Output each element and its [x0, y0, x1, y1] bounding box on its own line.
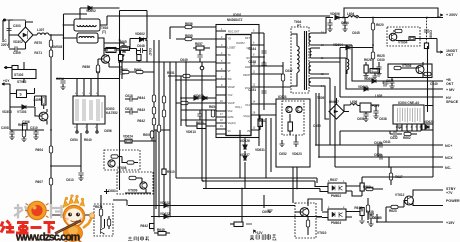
svg-text:VG(12): VG(12): [228, 122, 236, 125]
ground: [389, 86, 394, 89]
IC602 box: [73, 96, 105, 124]
resistor R610 boxed: [162, 169, 166, 175]
resistor inside: [111, 155, 118, 158]
box VT606: [388, 64, 432, 78]
wire bus above IC602: [56, 78, 120, 80]
ground: [327, 29, 332, 32]
cap C310: [33, 132, 38, 134]
diode VD608 boxed: [370, 69, 380, 74]
arrow 180V: [440, 51, 443, 53]
label 来自副电源 (from aux supply): [250, 234, 277, 240]
svg-text:VD602: VD602: [86, 9, 96, 13]
output rail labels: [445, 13, 460, 225]
svg-text:C640: C640: [430, 82, 438, 86]
label C683: [104, 189, 109, 194]
wire C699 ground: [264, 195, 268, 211]
svg-text:DM545: DM545: [52, 45, 63, 49]
svg-text:C616: C616: [125, 107, 133, 111]
dashed vertical + C608: [426, 18, 428, 44]
svg-text:340R: 340R: [33, 98, 41, 102]
resistor R645: [162, 96, 165, 103]
optocoupler PC603: [328, 209, 346, 220]
svg-text:C647: C647: [148, 48, 152, 56]
svg-text:R604: R604: [35, 148, 43, 152]
svg-text:VT606: VT606: [402, 64, 412, 68]
transformer T602 lower winding: [77, 33, 98, 43]
svg-text:C641: C641: [383, 140, 391, 144]
caps on rails: [384, 81, 386, 86]
svg-text:VC(L): VC(L): [235, 106, 242, 109]
capacitor C630: [376, 67, 381, 69]
diode VD604: [346, 46, 350, 50]
svg-text:R662: R662: [403, 136, 411, 140]
wire from left: [240, 130, 317, 183]
resistor R650: [183, 74, 190, 77]
svg-text:R642: R642: [140, 224, 148, 228]
wire: [104, 43, 124, 45]
wire: [181, 62, 186, 126]
resistor inside: [395, 29, 402, 32]
svg-text:C309: C309: [13, 51, 21, 55]
resistor R638 boxed: [360, 208, 364, 216]
resistor R602b: [366, 187, 373, 190]
svg-text:VT: VT: [228, 70, 232, 73]
resistor boxed inside: [288, 122, 293, 131]
svg-text:C632: C632: [390, 136, 398, 140]
svg-text:OKT: OKT: [446, 53, 454, 57]
bottom pins IC602: [77, 124, 97, 131]
svg-text:R637: R637: [330, 178, 338, 182]
resistor R656b: [96, 65, 99, 72]
VD625 boxed diode: [422, 124, 433, 130]
diode VD603: [140, 38, 144, 42]
resistor R618: [366, 205, 369, 212]
svg-text:LOSET: LOSET: [228, 47, 237, 50]
svg-text:VD609: VD609: [358, 85, 368, 89]
svg-text:L307: L307: [37, 28, 44, 32]
svg-text:R642: R642: [137, 119, 145, 123]
svg-text:C645: C645: [352, 31, 360, 35]
resistor R655: [185, 37, 192, 40]
diode VD622: [164, 215, 168, 219]
resistor inside: [99, 209, 102, 216]
svg-text:WC: WC: [228, 78, 232, 81]
svg-text:R610: R610: [167, 170, 175, 174]
svg-text:VT610: VT610: [317, 231, 327, 235]
regulator box IC605: [360, 103, 371, 112]
svg-text:GCM: GCM: [228, 116, 234, 119]
svg-text:R661: R661: [134, 68, 142, 72]
svg-text:C628: C628: [374, 141, 382, 145]
diode VD303: [22, 105, 26, 109]
R662 resistor: [404, 132, 411, 135]
svg-text:VT612: VT612: [395, 193, 405, 197]
caps C658 C659: [363, 114, 368, 116]
svg-text:VT608: VT608: [117, 166, 127, 170]
resistor R620: [371, 23, 374, 30]
svg-text:C303: C303: [13, 24, 21, 28]
transistor VT608: [108, 160, 115, 167]
svg-text:YD: YD: [228, 38, 232, 41]
transistor VT610: [300, 208, 309, 217]
wire y166: [51, 133, 81, 172]
svg-text:R605: R605: [119, 40, 127, 44]
svg-text:+ MV: + MV: [446, 88, 455, 92]
wire feedback from +B: [362, 46, 433, 177]
wire column right of IC601: [263, 33, 265, 110]
ground inside module: [281, 140, 283, 144]
diode VD621: [164, 204, 168, 208]
diode VD626: [243, 145, 247, 149]
cap C639: [342, 23, 347, 25]
svg-text:R609: R609: [143, 133, 151, 137]
svg-text:C615: C615: [125, 94, 133, 98]
capacitor C309: [15, 46, 17, 51]
resistor inside2: [127, 161, 134, 164]
svg-text:C636: C636: [386, 79, 394, 83]
wire: [337, 98, 350, 112]
wire verticals center: [156, 76, 206, 209]
small box S: [17, 90, 27, 98]
wire: [125, 193, 322, 217]
svg-text:+OY: +OY: [3, 79, 10, 83]
resistor R656: [185, 25, 192, 28]
svg-text:RGC OKT: RGC OKT: [228, 31, 240, 34]
bridge rectifier VD302: [18, 27, 33, 43]
svg-text:C629: C629: [372, 216, 380, 220]
svg-text:VT604: VT604: [398, 41, 408, 45]
red 维库一下: [1, 221, 55, 234]
outer module box: [216, 25, 259, 138]
ground: [368, 224, 373, 227]
svg-text:TC: TC: [228, 54, 232, 57]
svg-text:220V: 220V: [1, 43, 9, 47]
svg-text:NCX: NCX: [445, 156, 453, 160]
svg-text:OKT: OKT: [446, 82, 454, 86]
capacitor C610: [200, 66, 204, 70]
wire verticals above IC602: [77, 59, 98, 96]
long vertical x51: [51, 62, 93, 215]
svg-text:C654: C654: [70, 138, 78, 142]
resistor R641 boxed: [258, 119, 263, 127]
ground: [359, 221, 364, 224]
resistor inside2: [424, 72, 431, 75]
svg-text:VD621: VD621: [160, 201, 170, 205]
resistor boxed inside2: [409, 37, 415, 41]
svg-text:POWER: POWER: [446, 199, 460, 203]
transformer T602 upper winding: [74, 19, 100, 31]
svg-text:IC601: IC601: [233, 13, 242, 17]
svg-text:VD303: VD303: [2, 110, 12, 114]
svg-text:VOGP: VOGP: [228, 86, 236, 89]
svg-text:VD613: VD613: [186, 130, 196, 134]
svg-text:VC1: VC1: [245, 104, 250, 107]
resistor R626 boxed: [364, 65, 368, 73]
arrow +12V aux: [246, 224, 256, 232]
gray text 找 片: [14, 204, 62, 219]
wire: [49, 35, 64, 40]
svg-text:C652: C652: [279, 152, 287, 156]
resistor R604: [49, 146, 52, 153]
svg-text:ST902: ST902: [17, 80, 27, 84]
svg-text:R618: R618: [354, 206, 362, 210]
svg-text:VD625: VD625: [424, 120, 434, 124]
svg-text:R627: R627: [395, 175, 403, 179]
resistor R642b boxed: [150, 224, 155, 229]
svg-text:ST302: ST302: [14, 73, 24, 77]
ground: [363, 76, 368, 79]
svg-text:C608: C608: [429, 30, 433, 38]
transistor VT605: [101, 55, 109, 63]
core: [305, 31, 307, 90]
svg-text:C651: C651: [248, 88, 256, 92]
wire left rail: [9, 84, 11, 130]
capacitor C636: [389, 81, 394, 83]
arrow OY: [2, 83, 10, 85]
transistor VT612: [405, 196, 414, 205]
cap C625: [368, 216, 373, 218]
svg-text:R671: R671: [95, 205, 103, 209]
resistor R646: [162, 110, 165, 117]
svg-text:C638: C638: [379, 117, 387, 121]
transistor Q1: [286, 106, 292, 112]
diode VD609: [364, 87, 368, 91]
resistor R643: [152, 107, 155, 114]
svg-text:R655: R655: [185, 34, 193, 38]
svg-text:VD624: VD624: [123, 135, 133, 139]
capacitor C644: [261, 51, 266, 53]
svg-text:OKT: OKT: [245, 37, 251, 40]
diode VD627: [243, 156, 247, 160]
svg-text:C648: C648: [137, 44, 145, 48]
capacitor D664: [119, 72, 124, 74]
inductor L603 vertical: [347, 59, 349, 70]
sub parts C657/R657: [196, 46, 204, 50]
bridge rectifier D607: [329, 104, 344, 119]
svg-text:R641: R641: [258, 119, 266, 123]
resistor R309 boxed: [42, 96, 47, 105]
wire: [282, 62, 284, 101]
wire NCX: [319, 93, 443, 157]
resistor R696 boxed: [360, 183, 364, 191]
svg-text:NN26847Z: NN26847Z: [227, 18, 242, 22]
diode VD608: [372, 79, 376, 83]
svg-text:R663: R663: [120, 68, 128, 72]
svg-text:RF: RF: [228, 62, 232, 65]
arrow +200V: [437, 14, 443, 17]
inductor L307: [37, 33, 49, 35]
label 去副电源 (to aux supply): [128, 237, 149, 242]
wires lower bus: [203, 181, 328, 192]
capacitor C643: [121, 46, 126, 48]
resistor R654: [211, 110, 214, 117]
svg-text:VD604: VD604: [333, 43, 343, 47]
resistor R640c: [96, 66, 99, 73]
C614 capacitor: [62, 79, 64, 88]
svg-text:VD631: VD631: [255, 148, 265, 152]
svg-text:VD606: VD606: [330, 12, 340, 16]
capacitor C611: [197, 114, 202, 116]
bottom pins IC604: [397, 124, 421, 129]
caps C628 C629: [380, 142, 382, 147]
wire NC-: [335, 86, 443, 167]
svg-text:C644: C644: [248, 47, 256, 51]
resistor R653: [181, 101, 188, 104]
resistor R654b boxed: [119, 55, 123, 61]
svg-text:R623: R623: [389, 209, 397, 213]
capacitor C651: [261, 91, 266, 93]
svg-text:VD626: VD626: [240, 139, 250, 143]
resistor inside: [306, 220, 309, 227]
dashed outline: [291, 27, 309, 93]
svg-text:T605: T605: [317, 96, 324, 100]
svg-text:R656: R656: [185, 22, 193, 26]
wire: [2, 20, 4, 40]
resistor R625: [371, 52, 374, 59]
svg-text:VD602: VD602: [135, 32, 145, 36]
optocoupler PC602: [328, 183, 346, 193]
svg-text:DN607: DN607: [329, 100, 339, 104]
wire +15V: [377, 214, 443, 222]
wire horiz: [176, 177, 240, 179]
svg-text:C649: C649: [180, 58, 188, 62]
svg-text:VD623: VD623: [292, 152, 302, 156]
pin number labels: [321, 31, 422, 209]
svg-text:R607: R607: [35, 180, 43, 184]
wire NC+: [316, 93, 443, 145]
secondary coils: [309, 33, 311, 45]
svg-text:NC-: NC-: [445, 166, 452, 170]
wire vertical: [241, 189, 243, 225]
svg-text:R570: R570: [34, 41, 42, 45]
transistor VT606: [416, 66, 424, 74]
svg-text:R651: R651: [167, 71, 175, 75]
resistor pair R663/R661 horizontal: [122, 70, 129, 73]
svg-text:R471: R471: [34, 51, 42, 55]
svg-text:C634: C634: [341, 21, 349, 25]
wire top rail: [64, 11, 148, 191]
svg-text:R696: R696: [366, 186, 374, 190]
diode VD606: [335, 16, 339, 20]
svg-text:VGCH2: VGCH2: [236, 42, 245, 45]
box ST302: [12, 70, 36, 79]
svg-text:R608: R608: [18, 123, 26, 127]
svg-text:C629: C629: [374, 153, 382, 157]
svg-text:C638: C638: [248, 60, 256, 64]
left pins of IC601: [216, 31, 226, 134]
resistor R649 boxed: [158, 232, 166, 236]
svg-text:R658: R658: [196, 121, 204, 125]
diode VD654: [120, 55, 124, 59]
svg-text:IC604 CNE-A0: IC604 CNE-A0: [398, 101, 419, 105]
resistor inside3: [129, 176, 136, 179]
wire band: [340, 129, 421, 145]
ground: [372, 76, 377, 79]
svg-text:C637: C637: [285, 69, 293, 73]
svg-text:VC2: VC2: [228, 110, 233, 113]
resistor R471: [49, 50, 52, 57]
transistor VT609: [140, 182, 147, 189]
wire: [9, 20, 18, 35]
wire: [320, 18, 333, 34]
transistor pair module outer box: [276, 99, 310, 167]
resistor R605 boxed: [120, 47, 130, 51]
resistor R308 boxed: [23, 124, 28, 131]
svg-text:(T): (T): [102, 30, 106, 34]
resistor R655b boxed: [137, 55, 141, 61]
svg-text:NC+: NC+: [445, 144, 452, 148]
wire node: [50, 57, 52, 62]
svg-text:R643: R643: [137, 108, 145, 112]
caps C615 C616: [130, 96, 132, 101]
capacitor C305 boxed: [12, 66, 18, 71]
svg-text:C683: C683: [108, 189, 116, 193]
wire top bus: [64, 14, 88, 60]
diode VD612: [203, 96, 207, 100]
svg-text:C310: C310: [30, 126, 38, 130]
wire HV: [320, 48, 443, 98]
svg-text:R638: R638: [366, 210, 374, 214]
right pins of IC601: [251, 33, 291, 146]
resistor C637: [281, 74, 284, 81]
transistor VT604: [389, 33, 397, 41]
transistor VT303: [39, 112, 48, 121]
resistor R644: [152, 95, 155, 102]
transistor VT613: [101, 228, 105, 234]
svg-text:C308: C308: [1, 126, 9, 130]
resistor R627: [389, 173, 392, 180]
wire feedback top: [107, 15, 330, 17]
svg-text:L606: L606: [350, 100, 357, 104]
svg-text:+ 200V: + 200V: [446, 13, 458, 17]
resistor R608: [22, 130, 25, 137]
wire verticals leaving module: [293, 167, 297, 203]
cap C308: [9, 132, 14, 134]
taps: [311, 33, 320, 86]
wire: [26, 22, 38, 49]
svg-text:VT609: VT609: [128, 189, 138, 193]
resistor boxed below C608: [424, 43, 428, 49]
svg-text:OKCP: OKCP: [243, 74, 250, 77]
wire loop over L604: [344, 8, 438, 18]
svg-text:+15V: +15V: [446, 221, 455, 225]
resistor R642: [152, 118, 155, 125]
resistor R648b: [157, 125, 160, 132]
svg-text:+12V: +12V: [372, 104, 380, 108]
resistor R570: [49, 40, 52, 47]
svg-text:C613: C613: [66, 178, 74, 182]
resistor R658: [197, 124, 206, 129]
svg-text:VGCP: VGCP: [228, 102, 235, 105]
wires to optos: [308, 199, 322, 217]
svg-text:S: S: [20, 93, 22, 97]
svg-text:SPACE: SPACE: [446, 100, 459, 104]
capacitor C638: [261, 63, 266, 65]
svg-text:R626: R626: [364, 58, 372, 62]
svg-text:R620: R620: [376, 23, 384, 27]
svg-text:L605: L605: [375, 94, 382, 98]
svg-text:+7V: +7V: [446, 191, 453, 195]
resistor R623: [391, 205, 398, 208]
capacitor inside module: [293, 142, 298, 144]
svg-text:www.dzsc.com: www.dzsc.com: [15, 232, 80, 242]
svg-text:C655: C655: [313, 124, 321, 128]
diode VD611: [194, 96, 198, 100]
cap C613: [78, 173, 83, 175]
wire verticals: [118, 40, 186, 224]
diode VD602: [88, 6, 92, 10]
ground: [342, 29, 347, 32]
